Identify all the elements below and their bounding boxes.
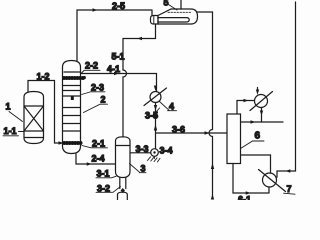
svg-text:3-4: 3-4 bbox=[160, 146, 173, 156]
arrow on 2-5 line bbox=[93, 8, 98, 11]
leader 3-1 underline bbox=[96, 176, 116, 178]
wire bottoms 2-4 from column 2 to vessel 3 bbox=[76, 154, 116, 164]
vessel 3 neck valve blob bbox=[121, 188, 125, 193]
arrow up toward junction bbox=[154, 124, 157, 131]
wire condenser 5 outlet down-left-down to vessel 3 bbox=[123, 24, 156, 137]
reactor R1 vessel 1 body bbox=[24, 92, 44, 144]
svg-text:3-5: 3-5 bbox=[145, 111, 158, 121]
svg-text:6: 6 bbox=[255, 131, 261, 142]
svg-text:3: 3 bbox=[141, 164, 146, 174]
reactor 1 X packing bbox=[24, 106, 44, 131]
svg-text:5: 5 bbox=[164, 0, 169, 8]
condenser 5 level dashes bbox=[168, 11, 192, 13]
arrow up at bottom of line A bbox=[211, 194, 214, 200]
svg-text:2-2: 2-2 bbox=[85, 61, 98, 71]
svg-text:5-1: 5-1 bbox=[112, 52, 125, 62]
pump 3-4 center dot bbox=[153, 151, 155, 153]
arrow up on line A bbox=[211, 163, 214, 169]
arrow left on heating line bbox=[286, 169, 291, 172]
condenser 5 head inner line bbox=[153, 16, 155, 25]
condenser top stub with arrow bbox=[257, 88, 259, 92]
svg-text:2-3: 2-3 bbox=[91, 83, 104, 93]
leader 2-2 underline bbox=[81, 70, 100, 73]
pump 3-4 circle bbox=[151, 149, 159, 157]
svg-text:1-2: 1-2 bbox=[37, 72, 50, 82]
pump 3-4 base stub and ground hatch bbox=[148, 156, 161, 162]
svg-text:4: 4 bbox=[169, 102, 174, 112]
arrow on 3-6 bbox=[205, 131, 210, 134]
leader 2 bbox=[84, 104, 108, 112]
arrow on bottoms line bbox=[87, 162, 92, 165]
compressor 4 diagonal bbox=[144, 88, 167, 106]
svg-text:3-3: 3-3 bbox=[136, 144, 149, 154]
wire heating medium line far right bbox=[277, 2, 296, 177]
wire reflux and distillate bbox=[241, 121, 284, 123]
svg-text:6-1: 6-1 bbox=[238, 195, 251, 201]
leader 5 bbox=[169, 5, 178, 11]
arrow on y38 segment pointing left bbox=[137, 37, 142, 40]
condenser (top right exchanger) circle bbox=[255, 95, 268, 108]
leader 2-3 underline bbox=[82, 92, 106, 95]
svg-text:2-1: 2-1 bbox=[92, 139, 105, 149]
condenser 5 shell bbox=[158, 9, 198, 24]
leader 7 underline bbox=[284, 193, 296, 194]
leader line label 1 bbox=[9, 112, 23, 122]
svg-text:2-4: 2-4 bbox=[92, 154, 105, 164]
leader 4 bbox=[160, 102, 177, 111]
wire reboiler loop bottom bbox=[233, 164, 269, 194]
svg-text:2-5: 2-5 bbox=[112, 1, 125, 11]
compressor 4 circle bbox=[150, 92, 161, 103]
svg-text:1: 1 bbox=[6, 102, 11, 112]
leader line label 1-1 bbox=[3, 132, 24, 136]
condenser E5 channel head bbox=[151, 16, 159, 25]
arrow on reboiler bottom line bbox=[246, 191, 251, 194]
arrow into compressor 4 top bbox=[154, 86, 157, 92]
column 2 small internal box bbox=[71, 97, 74, 101]
arrow on reflux line bbox=[251, 120, 256, 123]
column 2 lower packing dot band bbox=[62, 141, 82, 145]
wire 3-3 from vessel 3 to pump bbox=[130, 152, 151, 154]
wire 3-6 junction to column 6 bbox=[156, 132, 228, 134]
wire 4-1 from column 2 to compressor 4 bbox=[81, 74, 157, 92]
vessel 3 bottom pot bbox=[118, 192, 128, 200]
svg-text:2: 2 bbox=[101, 95, 106, 105]
column 2 upper packing dot band bbox=[62, 76, 86, 80]
arrow into condenser top bbox=[256, 90, 259, 95]
column 2 weld line under dome bbox=[64, 71, 80, 73]
leader 3-2 underline bbox=[96, 187, 121, 193]
svg-text:7: 7 bbox=[287, 184, 292, 194]
wire compressor 4 discharge down to junction and pump bbox=[155, 103, 157, 149]
arrow on overhead line bbox=[244, 99, 249, 102]
wire overhead 2-5 from column 2 to condenser 5 bbox=[77, 10, 152, 62]
vessel 3 body bbox=[116, 137, 131, 178]
wire reboiler vapor return bbox=[241, 155, 271, 173]
condenser 5 top nozzle bbox=[180, 0, 182, 9]
reboiler E7 circle bbox=[263, 173, 277, 187]
arrow down on condenser outlet bbox=[260, 111, 263, 116]
leader tick 3-5 bbox=[157, 108, 160, 112]
arrow on 4-1 line bbox=[114, 72, 119, 75]
vessel 3 bottom neck bbox=[120, 178, 126, 189]
column C6 body bbox=[227, 114, 241, 164]
leader 3 bbox=[130, 164, 147, 173]
svg-text:4-1: 4-1 bbox=[107, 64, 120, 74]
svg-text:3-1: 3-1 bbox=[97, 169, 110, 179]
reactor 1 internal tray lines bbox=[24, 106, 44, 138]
arrow down below compressor 4 bbox=[154, 105, 157, 111]
reboiler 7 diagonal bbox=[259, 170, 286, 192]
svg-text:1-1: 1-1 bbox=[4, 126, 17, 136]
wire from condenser 5 right end down (line A) bbox=[198, 12, 213, 199]
vessel 3 weld line bbox=[116, 145, 131, 147]
arrow feed into column 2 bbox=[59, 141, 64, 144]
wire feed 1-2 from reactor 1 top to column 2 bbox=[28, 81, 62, 144]
wire condenser outlet down bbox=[261, 108, 263, 123]
column 2 tray lines bbox=[63, 86, 81, 132]
column C2 body bbox=[63, 61, 81, 154]
condenser 5 inner tube bbox=[158, 18, 189, 22]
leader 2-1 underline bbox=[82, 146, 108, 148]
wire column 6 overhead to condenser E4b bbox=[237, 101, 255, 115]
condenser diagonal bbox=[250, 92, 273, 111]
svg-text:3-6: 3-6 bbox=[172, 125, 185, 135]
leader 6 bbox=[241, 141, 265, 149]
